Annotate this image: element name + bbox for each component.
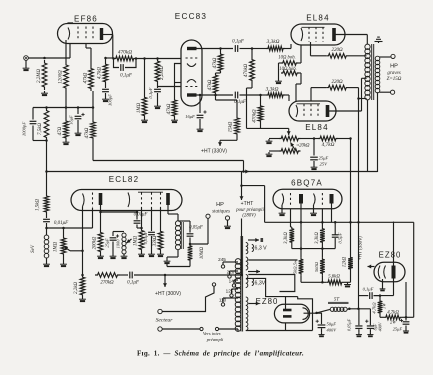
ground (pot 1M) bbox=[60, 256, 67, 267]
svg-text:Vers inter.: Vers inter. bbox=[203, 331, 221, 336]
svg-text:0,01μF: 0,01μF bbox=[134, 213, 148, 218]
wire EZ80 cathode to filter bbox=[374, 279, 394, 297]
svg-text:(280V): (280V) bbox=[242, 214, 256, 219]
svg-text:Z=15Ω: Z=15Ω bbox=[387, 77, 402, 82]
ECL82 pentode plate bbox=[166, 193, 170, 205]
EZ80 right label bbox=[379, 251, 402, 260]
svg-text:3,3kΩ: 3,3kΩ bbox=[315, 232, 320, 244]
capacitor C16 0,5&#956;F bbox=[322, 222, 343, 248]
choke 5T core bbox=[328, 298, 349, 305]
EZ80 right cathode bbox=[392, 266, 396, 279]
wire 6BQ7A a1 down bbox=[300, 204, 303, 258]
wire EF86 plate to node bbox=[103, 35, 114, 60]
svg-text:1MΩ: 1MΩ bbox=[134, 235, 139, 246]
potentiometer 1M&#937; bbox=[54, 228, 71, 256]
svg-text:1000: 1000 bbox=[116, 239, 121, 249]
transformer T3 winding HT bbox=[246, 257, 248, 270]
EF86 plate bbox=[100, 28, 103, 40]
wire 6BQ7A g2 down bbox=[321, 209, 323, 227]
wire feedback from secondary bbox=[377, 92, 379, 172]
resistor R14 15k&#937; bbox=[216, 95, 240, 136]
resistor R28 10M&#937; bbox=[188, 244, 205, 262]
wire input to EF86 grid bbox=[28, 44, 70, 59]
ECL82 triode cathode bbox=[83, 194, 85, 207]
svg-text:220Ω: 220Ω bbox=[331, 80, 343, 85]
wire +HT300 arrow bbox=[163, 274, 167, 287]
tube V2 ECC83 bbox=[181, 40, 202, 106]
ECC83 cathode k2 bbox=[187, 80, 196, 83]
EZ80 left plate 1 bbox=[283, 309, 292, 312]
wire to ECC83 grid bbox=[136, 57, 181, 60]
ground (EL84 cathodes) bbox=[275, 79, 282, 84]
svg-text:270kΩ: 270kΩ bbox=[100, 281, 114, 286]
wire EZ80 left plate2 feed bbox=[246, 323, 313, 331]
ground (R27) bbox=[157, 252, 164, 257]
wire cathode bus bbox=[33, 91, 94, 120]
resistor R36 12k&#937; bbox=[343, 222, 353, 282]
tube V7 EZ80 (right) bbox=[374, 262, 405, 282]
transformer T3 primary bbox=[235, 259, 241, 332]
svg-text:3,3kΩ: 3,3kΩ bbox=[266, 87, 279, 93]
resistor R6 47&#937; bbox=[58, 119, 68, 140]
wire R19 bottom bbox=[247, 123, 291, 135]
capacitor C13 0,05&#956;F bbox=[143, 208, 155, 253]
ground (C19) bbox=[403, 329, 409, 334]
ground (T2) bbox=[164, 259, 171, 264]
EZ80 right plate 1 bbox=[378, 266, 380, 279]
resistor R2 1200&#937; bbox=[59, 62, 69, 91]
svg-text:Fɪɡ. 1. — Schéma de principe d: Fɪɡ. 1. — Schéma de principe de l’amplif… bbox=[137, 350, 304, 358]
tube V4 EL84 (bottom) bbox=[289, 101, 336, 121]
wire to volume pot bbox=[45, 208, 92, 229]
EL84 bottom plate bbox=[297, 104, 330, 117]
EL84 bottom grids bbox=[304, 104, 318, 118]
resistor R12 47k&#937; bbox=[213, 49, 223, 74]
svg-text:EL84: EL84 bbox=[305, 123, 328, 132]
wire filter node bbox=[348, 308, 370, 311]
svg-text:4,7kΩ: 4,7kΩ bbox=[372, 302, 378, 314]
mains tap 110 bbox=[219, 298, 238, 307]
resistor R25 200k&#937; bbox=[93, 211, 103, 254]
svg-text:0,5μF: 0,5μF bbox=[338, 232, 344, 243]
resistor R11 47k&#937; bbox=[167, 98, 177, 118]
svg-text:220: 220 bbox=[227, 270, 235, 275]
svg-text:125: 125 bbox=[226, 289, 234, 294]
EZ80 left label bbox=[256, 297, 279, 306]
transformer T3 winding 6,3V (1) bbox=[246, 238, 267, 254]
svg-text:4,7kΩ: 4,7kΩ bbox=[387, 311, 399, 316]
ground (EZ80 right) bbox=[380, 287, 386, 291]
svg-text:16μF: 16μF bbox=[69, 115, 74, 125]
inductor Self bbox=[31, 235, 49, 258]
capacitor C20 50&#956;F 400V bbox=[316, 313, 338, 332]
svg-text:110: 110 bbox=[219, 298, 227, 303]
resistor R33 3,3k&#937; bbox=[315, 227, 325, 250]
svg-text:47Ω: 47Ω bbox=[58, 126, 63, 135]
ECC83 label bbox=[175, 12, 207, 21]
svg-text:5kΩ,5w: 5kΩ,5w bbox=[293, 259, 299, 274]
capacitor C21 0,05&#956;F bbox=[347, 309, 363, 333]
terminal HP- bbox=[391, 90, 395, 94]
+HT (330V) label mid bbox=[201, 149, 227, 155]
ground (Self) bbox=[43, 258, 50, 267]
svg-text:+THT: +THT bbox=[241, 201, 254, 207]
wire feedback bus bbox=[47, 170, 378, 174]
ground (C5) bbox=[154, 104, 161, 109]
svg-text:3,3kΩ: 3,3kΩ bbox=[267, 39, 280, 45]
wire T2 bottom bbox=[167, 250, 178, 260]
+HT (330V) rail label bbox=[358, 236, 363, 260]
resistor R23 4,7k&#937; bbox=[301, 136, 352, 148]
capacitor C14 0,05&#956;F bbox=[187, 226, 203, 246]
ground (input jack) bbox=[23, 60, 30, 71]
heater wire B bbox=[248, 275, 294, 292]
svg-text:400V: 400V bbox=[327, 328, 338, 333]
svg-text:1W: 1W bbox=[382, 303, 387, 309]
resistor R34 560&#937; bbox=[314, 249, 325, 276]
svg-text:préampli: préampli bbox=[206, 337, 224, 342]
svg-text:6,3V: 6,3V bbox=[255, 281, 266, 287]
heater wire A bbox=[248, 259, 297, 261]
svg-text:HP: HP bbox=[216, 202, 224, 208]
svg-text:3,3kΩ: 3,3kΩ bbox=[284, 232, 289, 244]
mains tap 220 bbox=[227, 270, 238, 279]
wire T2 top to C14 bbox=[178, 221, 190, 233]
EZ80 left cathode bbox=[303, 308, 309, 320]
resistor R4 4,7k&#937; bbox=[98, 58, 108, 84]
resistor R1 2,2M&#937; bbox=[37, 60, 47, 90]
capacitor C3 16&#956;F bbox=[69, 108, 85, 132]
svg-text:0,05μF: 0,05μF bbox=[143, 231, 149, 244]
ground (C8) bbox=[197, 127, 204, 132]
wire 6BQ7A a2 down bbox=[331, 204, 333, 223]
wire coupling to 6BQ7A bbox=[165, 219, 243, 277]
capacitor C10 0,01&#956;F bbox=[43, 214, 69, 235]
terminal Secteur 2 bbox=[158, 327, 162, 331]
svg-text:25V: 25V bbox=[320, 162, 329, 167]
svg-text:2,2MΩ: 2,2MΩ bbox=[37, 69, 42, 83]
transformer T1 top connection bbox=[375, 37, 383, 43]
resistor R13 47k&#937; bbox=[208, 73, 221, 95]
rectifier box bbox=[359, 222, 414, 317]
mains tap 145 bbox=[229, 279, 238, 288]
svg-text:10MΩ: 10MΩ bbox=[200, 246, 205, 259]
svg-text:25μF: 25μF bbox=[393, 327, 403, 332]
EL84 bottom label bbox=[305, 123, 328, 132]
capacitor C12 25&#956;F bbox=[105, 232, 120, 255]
wire mains line 2 bbox=[162, 327, 238, 331]
resistor R29 2,2k&#937; bbox=[74, 274, 85, 297]
svg-text:25μF: 25μF bbox=[105, 238, 110, 248]
svg-text:EZ80: EZ80 bbox=[379, 251, 402, 260]
EZ80 left plate 2 bbox=[283, 315, 292, 318]
svg-text:5T: 5T bbox=[334, 298, 340, 303]
capacitor C18 0,1&#956;F bbox=[359, 287, 381, 300]
svg-text:47kΩ: 47kΩ bbox=[208, 79, 213, 90]
svg-text:ECC83: ECC83 bbox=[175, 12, 207, 21]
EL84 top label bbox=[306, 14, 329, 23]
svg-text:Secteur: Secteur bbox=[156, 318, 174, 324]
svg-text:470kΩ: 470kΩ bbox=[244, 63, 249, 77]
capacitor C8 16&#956;F bbox=[185, 94, 206, 127]
wire EL84 top plate to OT bbox=[335, 35, 367, 45]
wire 10M bottom bbox=[167, 262, 190, 267]
transformer T3 winding 6,3V (2) bbox=[246, 270, 266, 288]
ground (R29) bbox=[79, 297, 86, 302]
resistor R37 4,7k&#937; 1W bbox=[372, 296, 387, 315]
resistor R19 470k&#937; (bottom) bbox=[253, 94, 263, 123]
capacitor C7 0,1&#956;F (bottom) bbox=[234, 92, 260, 105]
choke 5T bbox=[317, 307, 350, 313]
ECC83 cathode k1 bbox=[187, 64, 196, 67]
svg-text:25μF: 25μF bbox=[319, 156, 329, 161]
wire screen rail A bbox=[93, 140, 244, 172]
svg-text:1000pF: 1000pF bbox=[22, 122, 27, 136]
capacitor C1 100pF bbox=[102, 84, 112, 106]
+THT labels bbox=[235, 201, 264, 219]
svg-text:15kΩ: 15kΩ bbox=[229, 121, 234, 132]
EF86 grid g1 bbox=[77, 27, 79, 41]
svg-text:4,7kΩ: 4,7kΩ bbox=[98, 67, 103, 79]
wire 6BQ7A mid bus bbox=[292, 248, 323, 250]
6BQ7A cathode k2 bbox=[314, 194, 316, 206]
capacitor C9 25&#956;F bbox=[310, 139, 328, 167]
resistor R7 47k&#937; bbox=[85, 120, 95, 140]
svg-text:+HT (300V): +HT (300V) bbox=[155, 291, 181, 297]
6BQ7A grid g2 bbox=[321, 193, 323, 206]
resistor R22 220&#937; (bottom) bbox=[311, 80, 367, 101]
resistor R5 7,5k&#937; bbox=[38, 108, 49, 141]
wire secondary to HP terminals bbox=[380, 57, 391, 92]
transformer T1 secondary bbox=[375, 56, 380, 93]
HP statiques label bbox=[212, 202, 230, 215]
transformer T3 core bbox=[241, 236, 243, 332]
svg-text:statiques: statiques bbox=[212, 210, 230, 215]
svg-text:≈20kΩ: ≈20kΩ bbox=[296, 144, 310, 149]
svg-text:5,6kΩ: 5,6kΩ bbox=[328, 275, 340, 280]
svg-text:EF86: EF86 bbox=[74, 15, 98, 24]
svg-text:6,3 V: 6,3 V bbox=[255, 246, 268, 252]
resistor R39 4,7k&#937; 2W bbox=[380, 311, 407, 325]
svg-text:SeV: SeV bbox=[31, 244, 36, 253]
svg-text:33kΩ: 33kΩ bbox=[153, 235, 158, 246]
wire 6BQ7A g1 down bbox=[291, 209, 292, 227]
resistor R17 10&#937; bob. bbox=[278, 45, 301, 66]
svg-text:1200Ω: 1200Ω bbox=[59, 70, 64, 84]
resistor R9 2,2M&#937; bbox=[155, 59, 165, 85]
Secteur label bbox=[156, 318, 174, 324]
mains selector wiper bbox=[162, 283, 216, 312]
wire ECL82 pentode g1 bbox=[140, 208, 143, 230]
potentiometer 1000&#937; bbox=[113, 232, 132, 254]
capacitor C15 0,1&#956;F bbox=[120, 272, 165, 286]
terminal HP statiques 2 bbox=[225, 216, 229, 220]
wire R15 bottom bbox=[247, 83, 253, 128]
svg-text:1MΩ: 1MΩ bbox=[137, 102, 142, 113]
tube V6 6BQ7A bbox=[273, 189, 342, 209]
ECL82 pentode cathode bbox=[128, 193, 130, 208]
svg-text:0,1μF: 0,1μF bbox=[127, 281, 140, 286]
svg-text:470kΩ: 470kΩ bbox=[253, 109, 258, 123]
ground (C3) bbox=[75, 131, 82, 136]
wire EZ80 right cathode up bbox=[393, 222, 395, 266]
svg-text:0,01μF: 0,01μF bbox=[54, 221, 69, 226]
resistor R30 270k&#937; bbox=[95, 273, 120, 286]
EF86 grid g2 bbox=[85, 27, 87, 41]
capacitor C5 0,1&#956;F bbox=[148, 84, 161, 104]
terminal Secteur 1 bbox=[158, 309, 162, 313]
Vers inter. preampli label bbox=[203, 331, 224, 342]
ground (C22) bbox=[367, 333, 373, 338]
svg-text:0,1μF: 0,1μF bbox=[232, 40, 245, 45]
svg-text:EZ80: EZ80 bbox=[256, 297, 279, 306]
6BQ7A label bbox=[291, 179, 323, 188]
svg-text:47kΩ: 47kΩ bbox=[213, 57, 218, 68]
EL84 bottom cathode bbox=[296, 105, 298, 117]
ECL82 pentode grids bbox=[138, 192, 163, 207]
svg-text:145: 145 bbox=[229, 279, 237, 284]
capacitor C19 25&#956;F bbox=[393, 317, 410, 331]
svg-text:ECL82: ECL82 bbox=[109, 175, 139, 184]
svg-text:47kΩ: 47kΩ bbox=[167, 103, 172, 114]
EL84 top plate bbox=[302, 27, 336, 41]
resistor R26 1M&#937; bbox=[134, 228, 144, 252]
resistor R24 1,5k&#937; bbox=[36, 194, 49, 214]
EF86 grid g3 bbox=[92, 27, 94, 41]
svg-text:1,5kΩ: 1,5kΩ bbox=[36, 199, 41, 211]
wire ECC83 a2 right bbox=[197, 94, 234, 97]
svg-text:245: 245 bbox=[218, 257, 226, 262]
svg-text:graves: graves bbox=[387, 71, 400, 76]
ground (R25) bbox=[97, 254, 104, 259]
terminal HP+ bbox=[391, 54, 395, 58]
capacitor C6 0,1&#956;F (top) bbox=[232, 40, 252, 52]
wire ECC83 cathode loop bbox=[175, 64, 182, 99]
6BQ7A cathode k1 bbox=[282, 194, 284, 206]
svg-text:10Ω bob.: 10Ω bob. bbox=[278, 56, 295, 61]
ground (pot 1000) bbox=[121, 254, 128, 259]
wire 6BQ7A top bus bbox=[265, 221, 414, 224]
EZ80 left heater bbox=[249, 302, 260, 306]
ground (HP statiques) bbox=[224, 220, 231, 229]
ground (R35) bbox=[344, 282, 351, 287]
tube V3 EL84 (top) bbox=[291, 24, 345, 45]
svg-text:560Ω: 560Ω bbox=[314, 261, 319, 272]
wire EF86 cathode down bbox=[65, 40, 67, 62]
6BQ7A plate a2 bbox=[330, 194, 334, 204]
capacitor C22 8&#956;F 400V bbox=[365, 309, 382, 333]
svg-text:6BQ7A: 6BQ7A bbox=[291, 179, 323, 188]
transformer T1 primary bbox=[365, 44, 370, 100]
svg-text:HP: HP bbox=[390, 64, 398, 70]
mains tap 245 bbox=[218, 257, 238, 268]
svg-text:EL84: EL84 bbox=[306, 14, 329, 23]
wire ECL82 triode cathode down bbox=[82, 207, 84, 276]
ground (6BQ7A k2) bbox=[310, 205, 317, 216]
svg-text:0,05μF: 0,05μF bbox=[189, 226, 203, 231]
+HT (300V) label bbox=[155, 291, 181, 297]
terminal HP statiques 1 bbox=[206, 214, 210, 218]
svg-text:+HT (330V): +HT (330V) bbox=[201, 149, 227, 155]
svg-text:0,1μF: 0,1μF bbox=[148, 87, 154, 98]
ground (R6) bbox=[63, 140, 70, 145]
svg-text:400V: 400V bbox=[378, 322, 383, 331]
svg-text:2,2kΩ: 2,2kΩ bbox=[74, 282, 79, 294]
transformer T2 (HP statiques) bbox=[168, 205, 183, 250]
EF86 cathode bbox=[68, 28, 70, 40]
EZ80 right heater arrow bbox=[368, 265, 375, 269]
tube V8 EZ80 (left) bbox=[274, 304, 309, 323]
HP graves label bbox=[387, 64, 402, 83]
EZ80 right plate 2 bbox=[384, 266, 386, 279]
capacitor C4 0,1&#956;F bbox=[114, 59, 137, 79]
ground (R26) bbox=[138, 252, 145, 257]
ground (C13) bbox=[148, 252, 155, 257]
ground (C9) bbox=[311, 165, 318, 170]
svg-text:0,1μF: 0,1μF bbox=[234, 100, 247, 105]
svg-text:16μF: 16μF bbox=[185, 114, 195, 119]
resistor R20 3,3k&#937; (bottom) bbox=[261, 87, 290, 102]
svg-text:10Ω bob.: 10Ω bob. bbox=[279, 67, 296, 72]
ground (C1) bbox=[102, 97, 109, 102]
resistor R3 47k&#937; bbox=[84, 66, 94, 91]
wire ECC83 g2 left bbox=[158, 86, 182, 88]
svg-text:0,1μF: 0,1μF bbox=[363, 287, 374, 293]
resistor R18 10&#937; bob. (2) bbox=[279, 63, 302, 101]
6BQ7A plate a1 bbox=[299, 194, 303, 204]
capacitor C11 0,01&#956;F bbox=[101, 205, 148, 228]
wire EZ80 left plate1 feed bbox=[246, 278, 313, 330]
resistor R27 33k&#937; bbox=[153, 208, 163, 253]
mains tap 125 bbox=[226, 289, 238, 298]
ECC83 grid g2 bbox=[186, 86, 198, 88]
resistor R21 220&#937; (top) bbox=[311, 42, 367, 58]
resistor R10 1M&#937; bbox=[137, 59, 147, 119]
wire EF86 g2 down bbox=[86, 44, 91, 67]
ECC83 plate a2 bbox=[187, 93, 197, 96]
svg-text:470kΩ: 470kΩ bbox=[118, 50, 132, 56]
ground (R10) bbox=[141, 118, 148, 123]
wire pot wiper to cathode bbox=[70, 250, 84, 253]
ground (6BQ7A k1) bbox=[279, 205, 286, 216]
wire right rail 1 bbox=[350, 139, 352, 223]
wire ECC83 a1 right bbox=[197, 47, 234, 50]
svg-text:0,1μF: 0,1μF bbox=[120, 74, 133, 79]
ECL82 label bbox=[109, 175, 139, 184]
resistor R35 5,6k&#937; bbox=[301, 275, 344, 285]
transformer T1 core bbox=[372, 44, 374, 100]
+THT pour preampli arrow bbox=[240, 172, 265, 223]
figure caption bbox=[137, 350, 304, 358]
ECC83 grid g1 bbox=[186, 57, 198, 59]
ECL82 triode grid bbox=[92, 193, 94, 208]
ground (hum pot top) bbox=[266, 139, 279, 145]
svg-text:2,2MΩ: 2,2MΩ bbox=[160, 66, 165, 80]
wire box right internal bbox=[405, 282, 407, 317]
svg-text:pour préampli: pour préampli bbox=[235, 208, 264, 213]
tube V5 ECL82 bbox=[71, 190, 182, 211]
wire feedback down bbox=[45, 139, 48, 194]
resistor R32 5k&#937;,5w bbox=[293, 257, 304, 275]
ground (C20) bbox=[318, 333, 324, 338]
resistor R15 470k&#937; (top) bbox=[244, 47, 254, 83]
svg-text:50μF: 50μF bbox=[327, 322, 337, 327]
svg-text:47kΩ: 47kΩ bbox=[85, 127, 90, 138]
ground (C21) bbox=[356, 333, 362, 338]
ground (C12) bbox=[110, 254, 117, 259]
svg-text:200kΩ: 200kΩ bbox=[93, 236, 98, 249]
ECC83 plate a1 bbox=[187, 47, 197, 50]
